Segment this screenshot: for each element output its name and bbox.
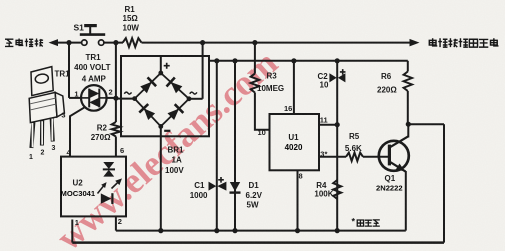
svg-text:*: * (351, 217, 355, 227)
